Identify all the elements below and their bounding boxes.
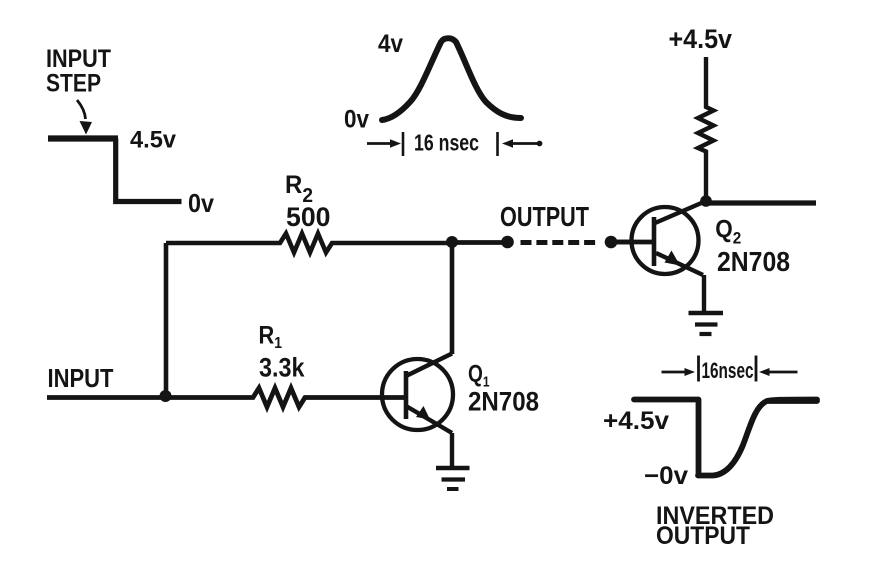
svg-text:INPUT: INPUT bbox=[48, 363, 114, 393]
svg-text:OUTPUT: OUTPUT bbox=[500, 201, 589, 232]
svg-text:4v: 4v bbox=[378, 30, 403, 58]
svg-text:3.3k: 3.3k bbox=[259, 353, 305, 383]
svg-text:+4.5v: +4.5v bbox=[603, 407, 669, 435]
svg-text:2N708: 2N708 bbox=[717, 246, 790, 277]
svg-text:0v: 0v bbox=[188, 188, 214, 218]
svg-text:2N708: 2N708 bbox=[468, 387, 539, 417]
svg-text:4.5v: 4.5v bbox=[130, 127, 177, 154]
svg-text:500: 500 bbox=[286, 202, 331, 232]
svg-text:16 nsec: 16 nsec bbox=[414, 130, 479, 156]
svg-text:+4.5v: +4.5v bbox=[669, 24, 733, 54]
svg-text:16nsec: 16nsec bbox=[702, 358, 754, 383]
svg-text:STEP: STEP bbox=[46, 70, 101, 98]
svg-text:OUTPUT: OUTPUT bbox=[656, 522, 750, 550]
svg-text:−0v: −0v bbox=[644, 462, 688, 490]
svg-text:0v: 0v bbox=[344, 106, 369, 134]
